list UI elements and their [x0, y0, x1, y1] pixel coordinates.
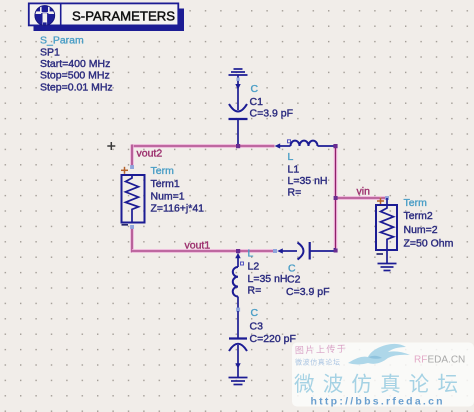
svg-text:Step=0.01 MHz: Step=0.01 MHz	[40, 82, 113, 94]
svg-text:Stop=500 MHz: Stop=500 MHz	[40, 70, 110, 82]
L1 instance label	[288, 151, 294, 163]
svg-text:C3: C3	[250, 321, 264, 333]
svg-text:Z=50 Ohm: Z=50 Ohm	[404, 238, 454, 250]
watermark bird logo	[348, 344, 410, 365]
wire top row vout2 (pink)	[132, 144, 275, 147]
node label vout2	[137, 148, 163, 160]
watermark RFEDA.CN	[414, 355, 465, 366]
wire left vertical lower (Term1 to vout1)	[130, 227, 133, 253]
SP1 designator	[40, 47, 60, 59]
wire bottom row vout1 (pink)	[132, 249, 275, 252]
C3 value C=220 pF	[250, 333, 296, 345]
terminal Term2	[376, 196, 397, 263]
S-PARAMETERS title box	[29, 3, 179, 25]
svg-text:C2: C2	[287, 274, 301, 286]
Term2 instance label	[404, 197, 428, 209]
svg-text:vout2: vout2	[137, 148, 163, 160]
wire left vertical upper (vout2 to Term1)	[130, 145, 133, 168]
svg-text:Term: Term	[404, 197, 428, 209]
svg-text:Term: Term	[151, 165, 175, 177]
watermark url	[311, 396, 445, 408]
Stop=500 MHz parameter	[40, 70, 110, 82]
Term1 Num=1	[151, 191, 185, 203]
node label vout1	[185, 240, 211, 252]
L2 value R=	[248, 285, 262, 297]
svg-text:C=3.9 pF: C=3.9 pF	[286, 286, 329, 298]
svg-text:L2: L2	[248, 261, 260, 273]
svg-text:Z=116+j*41: Z=116+j*41	[151, 203, 205, 215]
C1 designator	[250, 96, 264, 108]
svg-text:C1: C1	[250, 96, 264, 108]
Term1 designator	[151, 178, 180, 190]
svg-text:微波仿真论坛: 微波仿真论坛	[295, 358, 341, 367]
svg-text:Term1: Term1	[151, 178, 180, 190]
svg-text:SP1: SP1	[40, 47, 60, 59]
S_Param controller label	[40, 35, 84, 47]
Term2 Num=2	[404, 224, 438, 236]
S-PARAMETERS title text	[72, 8, 175, 23]
Term2 Z=50 Ohm	[404, 238, 454, 250]
svg-text:EDA.CN: EDA.CN	[428, 355, 466, 366]
junction node vout1/L2	[236, 249, 240, 253]
svg-text:C: C	[251, 83, 259, 95]
inductor L2	[233, 253, 244, 310]
Term1 instance label	[151, 165, 175, 177]
C2 designator	[287, 274, 301, 286]
svg-text:vin: vin	[357, 186, 371, 198]
simulation gear icon	[34, 4, 57, 25]
ground below C3	[229, 378, 248, 385]
L1 value R=	[288, 187, 302, 199]
watermark panel	[292, 343, 474, 407]
svg-text:微波仿真论坛: 微波仿真论坛	[294, 373, 466, 396]
ground (inverted) above C1	[229, 69, 248, 75]
svg-text:C: C	[251, 307, 259, 319]
svg-text:C=220 pF: C=220 pF	[250, 333, 296, 345]
C3 instance label	[251, 307, 259, 319]
L2 instance label	[248, 248, 254, 260]
svg-text:L=35 nH: L=35 nH	[248, 273, 288, 285]
plus marker near vout2	[107, 142, 115, 150]
inductor L1	[275, 140, 336, 149]
wire vin stub (pink)	[336, 196, 388, 199]
watermark small caption	[295, 343, 348, 367]
svg-text:R=: R=	[248, 285, 262, 297]
svg-text:L: L	[288, 151, 294, 163]
L2 designator	[248, 261, 260, 273]
svg-text:http://bbs.rfeda.cn: http://bbs.rfeda.cn	[311, 396, 445, 408]
svg-text:S_Param: S_Param	[40, 35, 84, 47]
Term1 Z=116+j*41	[151, 203, 205, 215]
capacitor C3	[229, 311, 247, 377]
L1 value L=35 nH	[288, 175, 328, 187]
svg-text:L: L	[248, 248, 254, 260]
watermark big title	[294, 373, 466, 396]
svg-text:Num=2: Num=2	[404, 224, 438, 236]
svg-text:C=3.9 pF: C=3.9 pF	[250, 108, 293, 120]
svg-text:L1: L1	[288, 164, 300, 176]
capacitor C1	[229, 76, 248, 147]
junction node C1/top row	[236, 144, 240, 148]
node label vin	[357, 186, 371, 198]
svg-text:L=35 nH: L=35 nH	[288, 175, 328, 187]
C2 instance label	[288, 263, 296, 275]
svg-text:S-PARAMETERS: S-PARAMETERS	[72, 8, 175, 23]
junction node vin	[334, 196, 338, 200]
C3 designator	[250, 321, 264, 333]
junction node L1/right wire	[333, 144, 337, 148]
L1 designator	[288, 164, 300, 176]
pin node L2/C3	[236, 308, 240, 312]
C2 value C=3.9 pF	[286, 286, 329, 298]
svg-text:Num=1: Num=1	[151, 191, 185, 203]
Step=0.01 MHz parameter	[40, 82, 113, 94]
svg-text:Term2: Term2	[404, 210, 433, 222]
C1 instance label	[251, 83, 259, 95]
Term2 designator	[404, 210, 433, 222]
svg-text:Start=400 MHz: Start=400 MHz	[40, 58, 110, 70]
C1 value C=3.9 pF	[250, 108, 293, 120]
L2 value L=35 nH	[248, 273, 288, 285]
capacitor C2	[273, 242, 335, 260]
svg-text:vout1: vout1	[185, 240, 211, 252]
wire right vertical (pink)	[334, 146, 337, 251]
ground below Term2	[378, 264, 397, 271]
svg-text:RF: RF	[414, 355, 427, 366]
Start=400 MHz parameter	[40, 58, 110, 70]
junction node C2/right wire	[334, 249, 338, 253]
svg-text:图片上传于: 图片上传于	[295, 343, 348, 356]
S-PARAMETERS title box shadow	[34, 9, 185, 32]
terminal Term1	[121, 165, 145, 229]
svg-text:R=: R=	[288, 187, 302, 199]
